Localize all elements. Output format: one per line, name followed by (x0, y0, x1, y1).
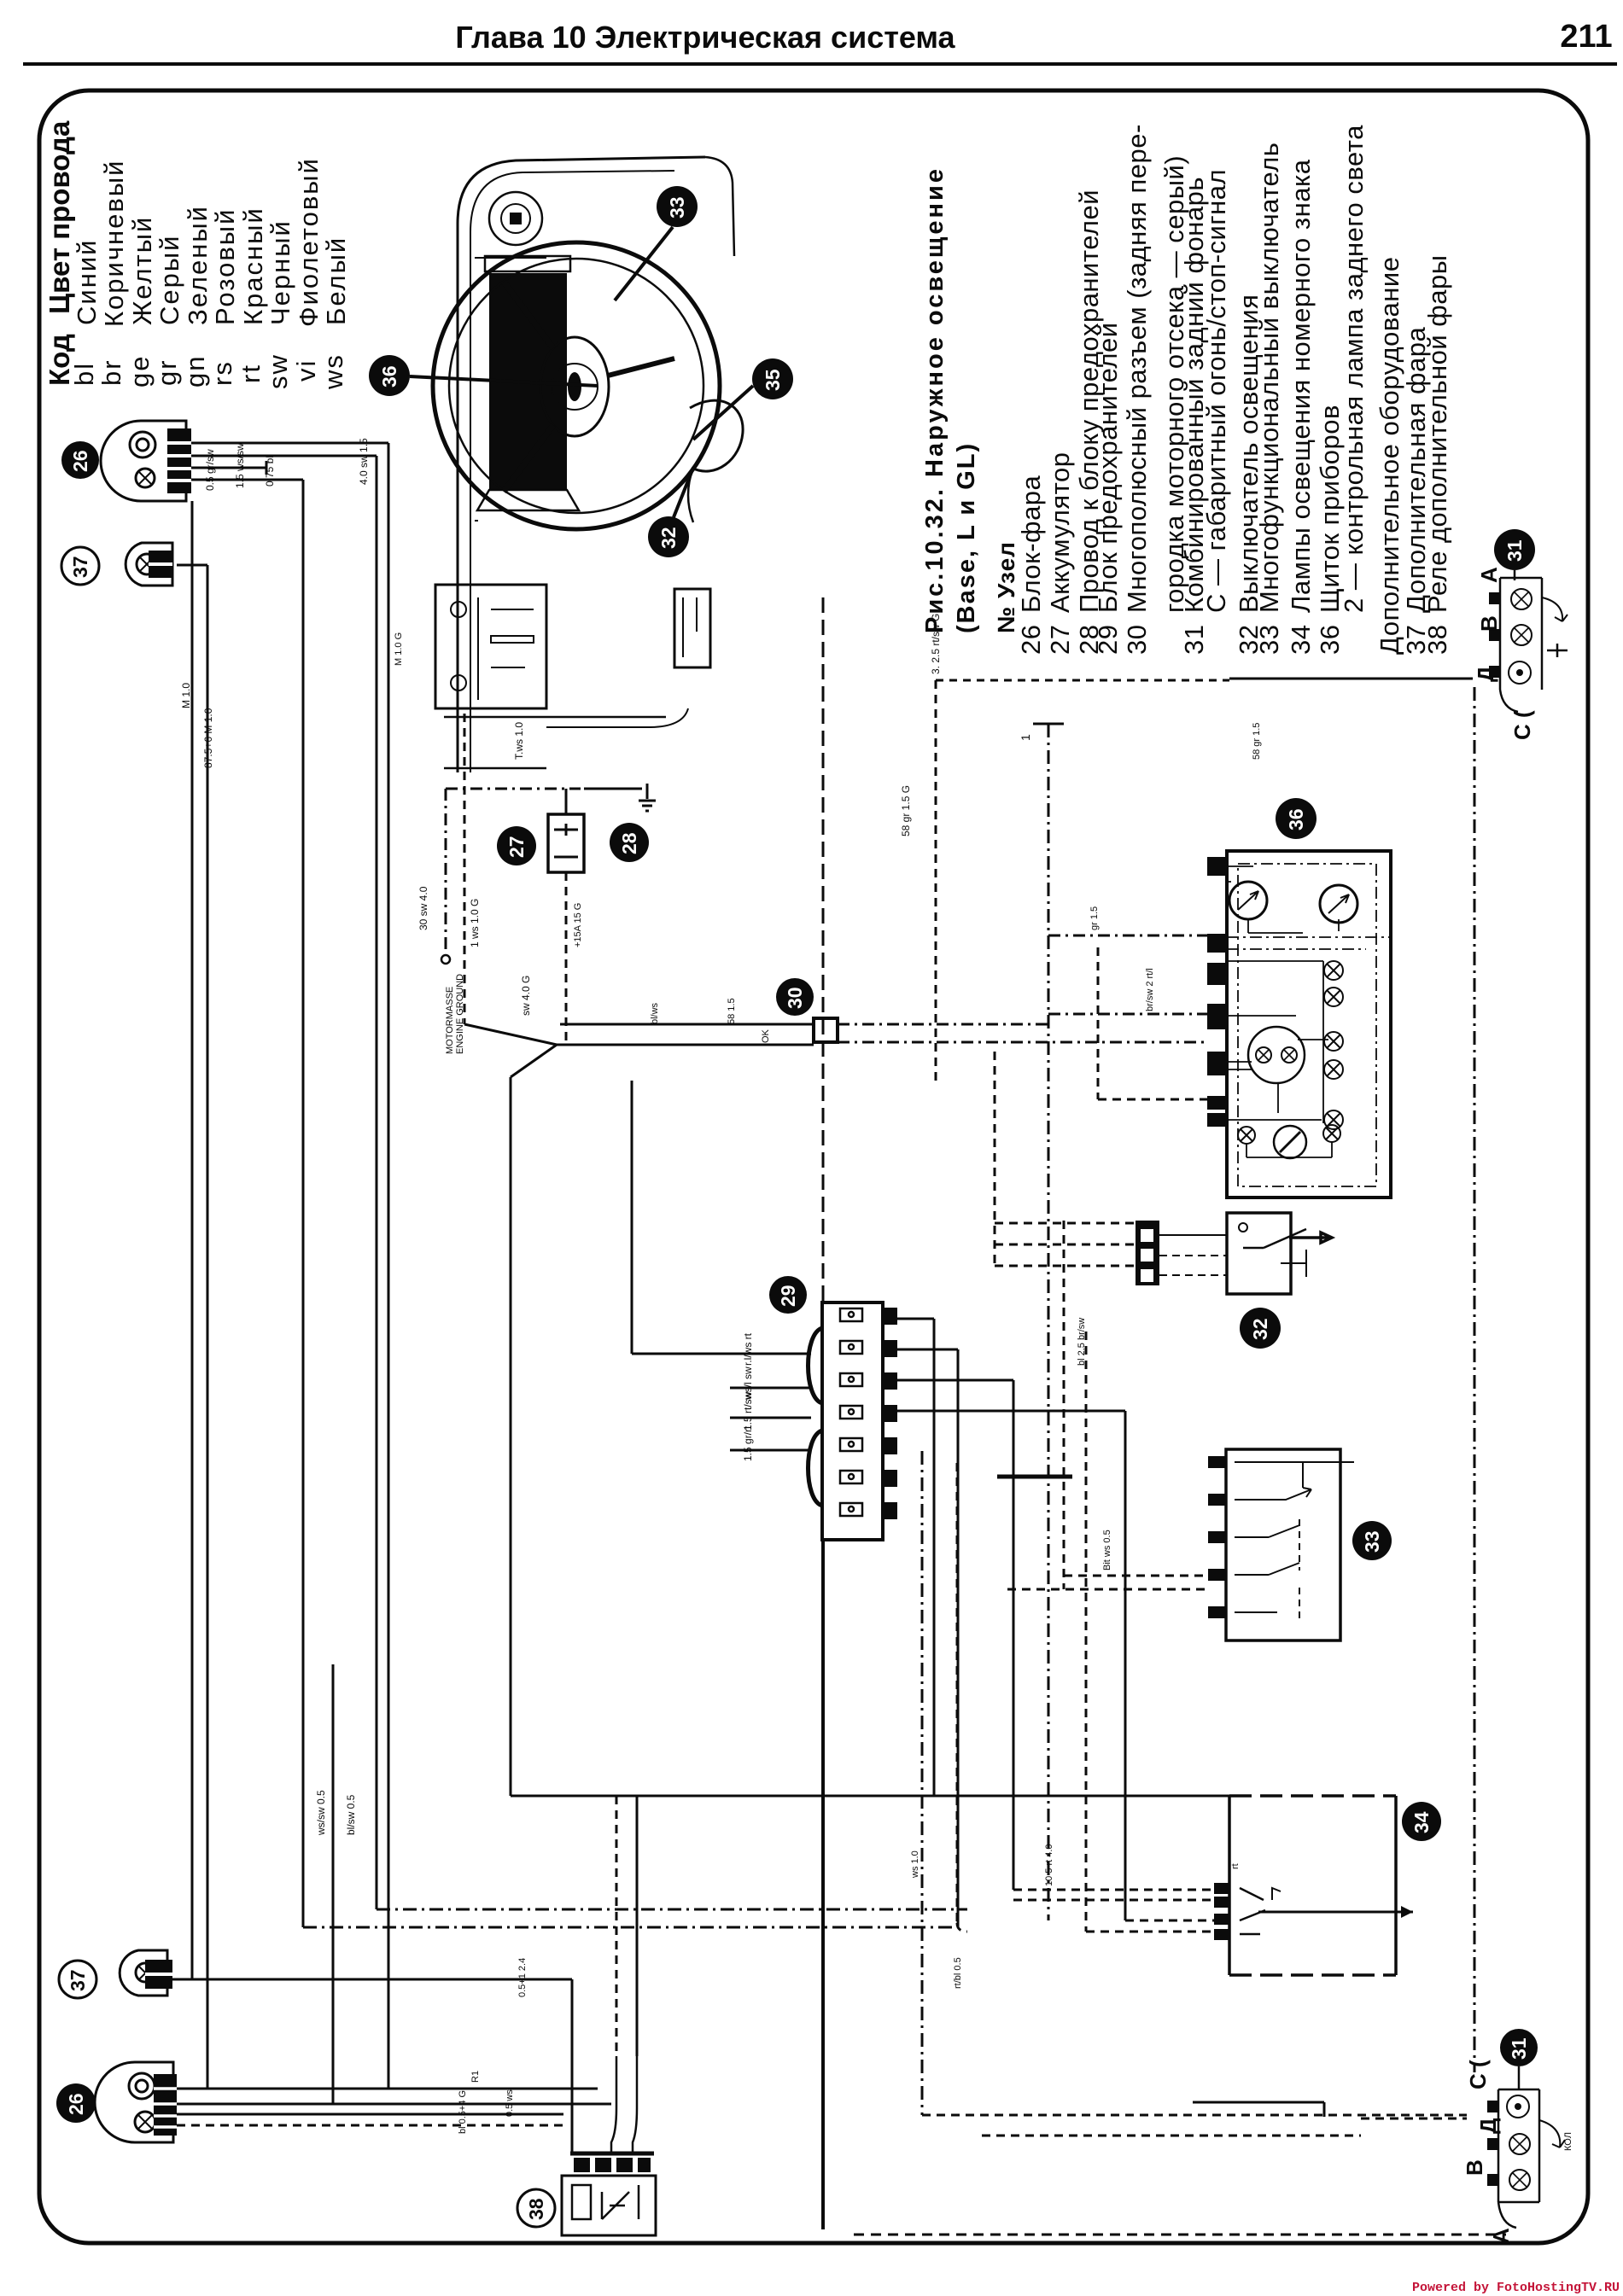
svg-text:32: 32 (657, 527, 680, 549)
svg-text:1.5 gr/rt: 1.5 gr/rt (742, 1425, 754, 1461)
svg-text:35: 35 (762, 369, 784, 391)
svg-text:Серый: Серый (155, 235, 184, 325)
svg-text:ws 1.0: ws 1.0 (910, 1850, 920, 1879)
svg-text:rs: rs (207, 360, 237, 386)
svg-text:Фиолетовый: Фиолетовый (294, 157, 324, 327)
svg-text:Коричневый: Коричневый (99, 160, 129, 327)
svg-text:30 sw 4.0: 30 sw 4.0 (417, 886, 429, 930)
svg-text:КОЛ: КОЛ (1563, 2132, 1573, 2151)
svg-text:bl 2.5 br/sw: bl 2.5 br/sw (1077, 1318, 1087, 1366)
svg-text:sw 4.0 G: sw 4.0 G (520, 976, 532, 1016)
svg-text:34: 34 (1410, 1811, 1433, 1833)
svg-text:1 ws 1.0 G: 1 ws 1.0 G (469, 899, 481, 947)
svg-text:OK: OK (761, 1029, 771, 1043)
svg-text:31: 31 (1508, 2037, 1530, 2060)
svg-text:26: 26 (65, 2093, 87, 2115)
svg-text:26: 26 (1016, 625, 1046, 655)
svg-text:26: 26 (69, 450, 91, 472)
svg-text:36: 36 (378, 365, 400, 388)
svg-text:36: 36 (1315, 625, 1345, 655)
svg-text:3. 2.5 rt/sw G: 3. 2.5 rt/sw G (930, 614, 942, 674)
svg-text:R1: R1 (470, 2071, 481, 2083)
svg-text:58 gr 1.5: 58 gr 1.5 (1252, 723, 1262, 760)
svg-text:bl 0.5+4 G: bl 0.5+4 G (458, 2090, 468, 2134)
svg-text:87.5+6 M 1.0: 87.5+6 M 1.0 (202, 708, 214, 768)
svg-text:gr 1.5: gr 1.5 (1089, 906, 1100, 930)
svg-text:Powered by FotoHostingTV.RU: Powered by FotoHostingTV.RU (1412, 2281, 1620, 2295)
svg-text:Реле дополнительной фары: Реле дополнительной фары (1422, 254, 1452, 613)
svg-text:В: В (1462, 2159, 1487, 2176)
svg-text:38: 38 (525, 2198, 547, 2220)
svg-text:Многофункциональный выключател: Многофункциональный выключатель (1254, 143, 1284, 613)
svg-text:33: 33 (1254, 625, 1284, 655)
svg-text:gn: gn (180, 355, 210, 388)
svg-text:2 — контрольная лампа заднего: 2 — контрольная лампа заднего света (1339, 125, 1369, 613)
svg-text:Желтый: Желтый (127, 216, 157, 325)
svg-text:33: 33 (666, 196, 688, 219)
svg-text:211: 211 (1560, 19, 1612, 55)
svg-text:rt: rt (1230, 1863, 1241, 1869)
svg-text:58 gr 1.5 G: 58 gr 1.5 G (900, 785, 912, 836)
svg-text:33: 33 (1361, 1530, 1383, 1553)
svg-text:А: А (1488, 2228, 1514, 2244)
svg-text:58 1.5: 58 1.5 (727, 998, 737, 1024)
svg-text:Дополнительное оборудование: Дополнительное оборудование (1375, 257, 1404, 655)
svg-text:Зеленый: Зеленый (183, 205, 213, 325)
svg-text:37: 37 (69, 556, 91, 578)
svg-text:ws/sw 0.5: ws/sw 0.5 (315, 1790, 327, 1836)
svg-text:br: br (96, 358, 126, 386)
svg-text:30: 30 (784, 987, 806, 1009)
svg-text:31: 31 (1179, 625, 1209, 655)
svg-text:4.0 sw 1.5: 4.0 sw 1.5 (358, 438, 370, 485)
svg-text:38: 38 (1422, 625, 1452, 655)
svg-text:Глава 10 Электрическая систем: Глава 10 Электрическая система (455, 20, 955, 55)
svg-text:Белый: Белый (321, 236, 351, 325)
svg-text:+15A 15 G: +15A 15 G (573, 903, 583, 947)
svg-text:1: 1 (1019, 734, 1032, 741)
svg-text:Красный: Красный (238, 207, 268, 325)
svg-text:29: 29 (777, 1285, 799, 1307)
svg-text:30: 30 (1122, 625, 1152, 655)
svg-text:В: В (1476, 615, 1502, 632)
svg-text:sw: sw (263, 353, 293, 389)
svg-text:Синий: Синий (72, 239, 102, 325)
svg-text:Лампы освещения номерного знак: Лампы освещения номерного знака (1286, 159, 1316, 613)
svg-text:Цвет провода: Цвет провода (44, 120, 75, 314)
svg-text:0.5 ws: 0.5 ws (505, 2089, 515, 2117)
svg-text:Розовый: Розовый (210, 208, 240, 325)
svg-text:rt/bl 0.5: rt/bl 0.5 (953, 1957, 963, 1989)
svg-text:32: 32 (1249, 1318, 1271, 1340)
svg-text:0.75 bl: 0.75 bl (264, 456, 276, 487)
svg-text:С (: С ( (1465, 2060, 1491, 2089)
svg-text:31: 31 (1503, 539, 1526, 562)
svg-text:(Base, L и GL): (Base, L и GL) (953, 442, 980, 633)
svg-text:Рис.10.32. Наружное освещение: Рис.10.32. Наружное освещение (921, 166, 949, 633)
svg-text:С — габаритный огонь/стоп-сигн: С — габаритный огонь/стоп-сигнал (1201, 169, 1231, 613)
svg-text:1.5 rt/sw: 1.5 rt/sw (742, 1391, 754, 1431)
svg-text:36: 36 (1285, 808, 1307, 830)
svg-text:Черный: Черный (266, 219, 295, 325)
svg-text:29: 29 (1093, 625, 1123, 655)
svg-text:Блок-фара: Блок-фара (1016, 475, 1046, 613)
svg-text:27: 27 (505, 836, 528, 858)
svg-text:0.5+1 2.4: 0.5+1 2.4 (517, 1958, 528, 1997)
svg-text:bl/sw 0.5: bl/sw 0.5 (345, 1794, 357, 1835)
svg-text:ws: ws (318, 353, 348, 390)
svg-text:С (: С ( (1509, 710, 1535, 740)
svg-text:34: 34 (1286, 625, 1316, 655)
svg-text:37: 37 (67, 1969, 89, 1991)
svg-text:Д: Д (1473, 666, 1498, 682)
svg-text:M 1.0 G: M 1.0 G (394, 632, 404, 666)
svg-text:Блок предохранителей: Блок предохранителей (1093, 322, 1123, 613)
svg-text:bl/ws: bl/ws (650, 1002, 660, 1024)
svg-text:ENGINE GROUND: ENGINE GROUND (455, 974, 465, 1054)
svg-text:rt: rt (236, 364, 266, 383)
svg-text:10 5 rt 4.0: 10 5 rt 4.0 (1044, 1844, 1054, 1886)
svg-text:vi: vi (291, 359, 321, 382)
svg-text:M 1.0: M 1.0 (180, 683, 192, 708)
svg-text:1.5 ws/sw: 1.5 ws/sw (234, 443, 246, 488)
svg-text:T.ws 1.0: T.ws 1.0 (513, 722, 525, 760)
svg-text:0.5 gr/sw: 0.5 gr/sw (204, 449, 216, 491)
svg-text:MOTORMASSE: MOTORMASSE (445, 987, 455, 1054)
svg-text:28: 28 (618, 832, 640, 854)
svg-text:r.l/ws rt: r.l/ws rt (742, 1332, 754, 1366)
svg-text:br/sw 2 rt/l: br/sw 2 rt/l (1145, 968, 1155, 1011)
svg-text:А: А (1476, 567, 1502, 583)
svg-text:Bit ws 0.5: Bit ws 0.5 (1102, 1530, 1112, 1570)
svg-text:ge: ge (125, 355, 155, 388)
svg-text:Многополюсный разъем (задняя п: Многополюсный разъем (задняя пере- (1122, 124, 1152, 613)
svg-text:Аккумулятор: Аккумулятор (1045, 452, 1075, 614)
svg-text:27: 27 (1045, 625, 1075, 655)
svg-text:bl: bl (69, 362, 99, 386)
svg-text:gr: gr (152, 358, 182, 386)
svg-text:Д: Д (1475, 2118, 1501, 2134)
